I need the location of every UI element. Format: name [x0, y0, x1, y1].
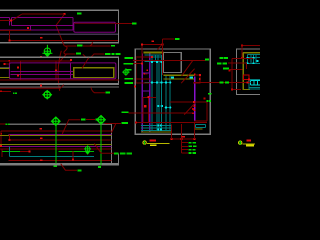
red rise diagonal [12, 14, 22, 21]
green vertical from symbol S4 [100, 124, 102, 165]
red leader right of panel A [116, 22, 132, 24]
red vertical left edge [0, 131, 2, 146]
red line y60.7 [0, 60, 71, 62]
row2 leader diagonal into panel B [58, 54, 66, 63]
panel C top border dark gray [10, 123, 112, 125]
green dash on right border [208, 93, 212, 95]
red line y80.2 [0, 79, 119, 81]
red dot near border [204, 98, 206, 100]
cyan mid rail y106 [157, 105, 163, 107]
olive line y144.3 [0, 143, 111, 145]
green label for leader2 [121, 122, 128, 124]
panel A bottom border [0, 42, 119, 44]
teal vertical x9.3 [8, 146, 10, 156]
purple vertical x72.9 [72, 18, 74, 31]
red dim line y151.4 with end dot [2, 151, 29, 153]
leader curve below panel B [91, 87, 105, 92]
purple line y146.3 [0, 145, 111, 147]
elevation target symbol [43, 90, 52, 99]
red dot at x9.4 [8, 39, 10, 41]
purple line y134.4 [9, 134, 112, 136]
purple outer rect [9, 63, 116, 79]
cyan rail y82.4 [144, 81, 171, 83]
leader above panel C left [62, 120, 80, 134]
green dash below gray line S4 [98, 166, 101, 168]
detail title 2 bubble [239, 141, 242, 144]
right annotation column texts [219, 57, 223, 59]
bright cyan ticks top box [151, 61, 153, 63]
green label right of panel A [132, 22, 137, 24]
green text row right of step [120, 153, 126, 155]
red bottom stub [232, 89, 241, 91]
red row y97.3 [143, 96, 156, 98]
annotation column texts right of panel B [125, 57, 133, 59]
big detail outer border [135, 49, 210, 134]
olive line y135.6 [0, 135, 111, 137]
bottom dim chain y138.9 [172, 138, 195, 140]
red line y130.9 [1, 130, 111, 132]
label row1 text [77, 45, 83, 47]
dark band y34.4 [0, 33, 118, 35]
ladder rungs [182, 142, 188, 144]
title 2 red text [247, 139, 252, 141]
red line y20.7 [0, 20, 12, 22]
panel A right border [118, 10, 120, 42]
red vertical x246.4 [245, 63, 247, 69]
label row1 line part2 [83, 45, 111, 47]
red dot left [8, 60, 10, 62]
purple line y17.6 left [0, 17, 9, 19]
big left red arc [58, 51, 61, 91]
row y57.2 [136, 56, 152, 58]
purple vertical x70.3 [69, 63, 71, 78]
green line y151.4 left segment [2, 151, 20, 153]
label row2 line part2 [94, 53, 105, 55]
label row1 curve hook [90, 42, 92, 46]
panel B lower thin gray line [0, 86, 119, 88]
purple midline 1 [10, 71, 73, 73]
red line y30.4 left [0, 30, 31, 32]
white stub left [0, 66, 9, 68]
violet connector top [142, 72, 150, 74]
leader y39.2 with label [162, 38, 174, 40]
violet mullion vertical 2 [149, 54, 151, 132]
cyan bottom rows [141, 124, 172, 126]
panel A top border [0, 9, 119, 11]
red vertical x56.2 [55, 61, 57, 80]
small detail gray border [237, 49, 261, 95]
bright cyan ticks top [247, 57, 249, 59]
green dash on line [114, 153, 118, 155]
red dot b [17, 75, 19, 77]
red box right of detail [193, 75, 200, 83]
red line y160.4 [9, 160, 112, 162]
cyan top box [144, 55, 161, 63]
label row2 leader line [65, 53, 76, 55]
break squiggle between rows [64, 46, 67, 54]
red marks right column [192, 108, 194, 110]
purple midline 2 [10, 73, 73, 75]
purple line y17.6 [11, 17, 73, 19]
bottom leader [61, 164, 77, 171]
red dot at transom right end [194, 74, 196, 76]
top dim line y44.5 [142, 44, 162, 46]
green dash below gray line S3 [53, 165, 57, 167]
teal line y156.5 [9, 156, 94, 158]
red line y149.2 [0, 148, 111, 150]
maroon top line of rect [74, 22, 116, 24]
title 1 red text [149, 140, 156, 142]
short diag into detail [158, 45, 162, 49]
bright red square left edge [0, 145, 2, 147]
olive bottom line [141, 131, 171, 133]
purple vertical x11.3 [10, 18, 12, 26]
green label y112 [121, 111, 128, 113]
label row2 text [76, 52, 81, 54]
section symbol S3 diamond [51, 117, 60, 126]
red leader row4 long [193, 82, 250, 84]
panel C bottom border thick [0, 163, 119, 165]
purple line y25.4 [11, 24, 74, 26]
green label above panel C [81, 119, 86, 121]
red text above dim [152, 41, 154, 43]
door frame stub y73.8 [143, 73, 147, 75]
purple vertical x9.4 [8, 18, 10, 26]
red vertical x9.6 with dot [9, 135, 11, 141]
row y82.9 [136, 82, 151, 84]
red stub top-left + green tick pair [0, 123, 5, 125]
leader diagonal from top label [56, 14, 64, 25]
bright red dash on it [40, 160, 43, 162]
bright cyan connector blocks on transom [171, 76, 174, 78]
red end dot [64, 13, 66, 15]
bottom green label [77, 169, 81, 171]
leader diagonal b [181, 69, 194, 84]
red stub and dot left [5, 63, 10, 65]
olive stub below [194, 128, 202, 130]
green tick pair below panel B [13, 92, 15, 94]
bright red square y106 [144, 105, 146, 107]
red leader vertical x136.2 [135, 58, 137, 83]
leader stubs [133, 57, 136, 59]
red leader row2 [228, 62, 246, 64]
section marker symbol above panel B [42, 45, 52, 57]
red row y101.9 [170, 101, 207, 103]
title 2 underline [242, 143, 254, 145]
leader diagonal a [182, 61, 193, 76]
red vertical x9.3 [8, 61, 10, 63]
olive transom band [163, 74, 194, 76]
red line y140.2 [10, 139, 112, 141]
red line top right corner [242, 45, 260, 47]
datum circle symbol [122, 68, 129, 75]
gray step vertical x118.4 [117, 153, 119, 164]
ladder green labels [188, 142, 191, 144]
cyan top structure [247, 54, 260, 63]
teal box below right [195, 124, 205, 127]
green label below panel B [106, 92, 111, 94]
red dot on border [40, 85, 42, 87]
violet mullion vertical 1 [141, 54, 143, 132]
bright red dash y37.6 [40, 37, 43, 39]
olive stub left bottom [0, 76, 9, 78]
red small box inside [243, 75, 248, 80]
green label top of panel A [77, 13, 82, 15]
red verticals inside detail [141, 45, 143, 64]
bright cyan tick cluster bottom [157, 125, 159, 127]
olive inner rect [74, 68, 114, 78]
panel B bottom border thick [0, 83, 119, 85]
red vertical x1.9 [1, 149, 3, 157]
detail title 1 bubble [143, 141, 146, 144]
inner gray wall rect [163, 52, 181, 72]
title 2 yellow text [246, 145, 254, 147]
red vertical x231.8 [231, 58, 233, 89]
panel C right border [110, 124, 112, 164]
red dot left edge [0, 133, 2, 135]
olive band top [144, 52, 164, 54]
violet connector bottom [142, 90, 150, 92]
small marker symbol S5 [84, 146, 91, 155]
title 1 yellow text [150, 144, 156, 146]
bright red dash y128.5 [39, 128, 42, 130]
red line y14 [22, 13, 65, 15]
red dot x56 [55, 69, 57, 71]
leader diagonal from bottom label [56, 25, 64, 46]
purple vertical x30.3 [29, 25, 31, 30]
olive frame vertical [242, 53, 244, 90]
olive frame bottom [243, 89, 250, 91]
leader diagonal c [184, 103, 195, 115]
red corner vertical [241, 46, 243, 58]
green line y151.4 right segment [59, 151, 94, 153]
red leader row1 into detail [232, 57, 254, 59]
green tick in bubble 2 [240, 141, 241, 145]
red right box verticals [206, 102, 208, 121]
cyan long verticals [152, 62, 170, 131]
red leader below panel B [0, 85, 64, 89]
green label 2 [95, 119, 99, 121]
olive stub left top [0, 67, 9, 69]
red dot at corner [241, 45, 243, 47]
red dot on panel B top border [40, 56, 42, 58]
red text above chain [181, 136, 185, 138]
title 1 underline [147, 142, 170, 144]
row y63.3 [133, 62, 142, 64]
red dim line below left [0, 90, 11, 92]
panel B top border [0, 56, 119, 58]
red row y113.1 [129, 112, 193, 114]
olive transom lower line [163, 78, 194, 80]
green vertical from symbol S3 [55, 126, 57, 164]
bright cyan box lower [250, 81, 260, 85]
red leader y153.4 to right step [94, 143, 118, 153]
label row1 text2 [111, 45, 115, 47]
red dot [10, 20, 12, 22]
leader diagonal to olive corner [82, 58, 89, 69]
bright cyan ticks on rail [151, 82, 153, 84]
panel B right border [118, 57, 120, 84]
green label at right end of long row [205, 59, 209, 61]
red vertical x9.4 [8, 31, 10, 41]
purple line y30.2 [0, 29, 73, 31]
red leader row3 [229, 69, 242, 71]
label row2 long text [105, 53, 111, 55]
violet right edge vertical [194, 77, 196, 122]
red dot a [17, 67, 19, 69]
bright cyan ticks mid [157, 105, 159, 107]
bright dot lower left [134, 86, 136, 88]
red dot and vertical x72.8 [72, 159, 74, 161]
bright red dash y138 [40, 137, 42, 139]
leader line continues [86, 119, 95, 121]
leader 2 above panel C [104, 122, 121, 124]
cyan lower structure [249, 80, 260, 90]
red line y40.4 [9, 39, 118, 41]
row y78.8 [136, 78, 151, 80]
red row y122.5 [136, 122, 207, 124]
dim extension verticals [171, 124, 173, 138]
red end dot [70, 59, 72, 61]
red vertical x20.6 [20, 61, 22, 80]
red dot mid [27, 27, 29, 29]
purple rounded rect right [74, 22, 116, 32]
label row2 dip curve [83, 54, 94, 58]
section symbol S4 diamond [97, 115, 106, 124]
green tick in bubble 1 [144, 141, 145, 145]
label row1 leader line [65, 45, 77, 47]
green dot pair at row end [207, 100, 209, 102]
ladder vertical [181, 139, 183, 153]
long row y60.6 [133, 60, 205, 62]
olive frame top [243, 52, 260, 54]
